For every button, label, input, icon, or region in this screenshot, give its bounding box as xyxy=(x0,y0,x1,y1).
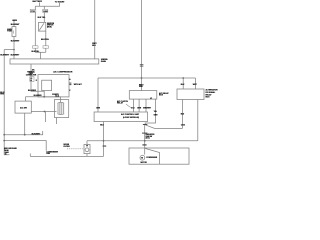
svg-text:GRN/WHT: GRN/WHT xyxy=(143,108,152,110)
svg-text:HORN: HORN xyxy=(12,20,16,22)
svg-text:BLK/YEL: BLK/YEL xyxy=(32,51,41,53)
svg-text:BLK/WHT: BLK/WHT xyxy=(11,24,21,26)
svg-text:A/C SW: A/C SW xyxy=(20,106,27,109)
svg-text:MOTOR: MOTOR xyxy=(141,162,148,164)
svg-text:BLK/WHT: BLK/WHT xyxy=(11,54,21,56)
svg-text:C5: C5 xyxy=(30,78,32,80)
svg-text:C432: C432 xyxy=(43,10,47,13)
svg-text:20: 20 xyxy=(30,80,32,82)
svg-text:BLK/YEL: BLK/YEL xyxy=(41,39,50,41)
svg-text:BLK/WHT: BLK/WHT xyxy=(32,134,42,136)
svg-text:BLU/RED: BLU/RED xyxy=(34,95,43,97)
svg-text:BATTERY: BATTERY xyxy=(33,0,43,3)
svg-text:(LOGIC MODULE): (LOGIC MODULE) xyxy=(123,117,139,119)
svg-text:BLU/RED: BLU/RED xyxy=(28,90,37,92)
svg-text:DASH: DASH xyxy=(101,60,107,63)
svg-text:YEL: YEL xyxy=(154,111,157,113)
svg-text:A/C CONTROL UNIT: A/C CONTROL UNIT xyxy=(121,113,140,116)
svg-text:TO START: TO START xyxy=(55,0,66,3)
svg-text:CONNECTOR: CONNECTOR xyxy=(26,75,37,77)
svg-text:C731: C731 xyxy=(31,11,35,13)
svg-text:(RUN): (RUN) xyxy=(47,26,52,28)
svg-text:PROT: PROT xyxy=(29,73,33,75)
svg-text:RELAY: RELAY xyxy=(117,102,124,105)
svg-text:BLK/WHT: BLK/WHT xyxy=(0,54,10,56)
svg-text:WITH A/T: WITH A/T xyxy=(74,83,83,86)
svg-text:A/C COMPRESSOR: A/C COMPRESSOR xyxy=(53,71,73,74)
svg-text:BLK/WHT: BLK/WHT xyxy=(11,40,21,42)
svg-text:87: 87 xyxy=(150,98,152,100)
svg-text:M: M xyxy=(141,158,143,160)
svg-text:(A/C): (A/C) xyxy=(146,136,150,139)
svg-text:FILTER: FILTER xyxy=(64,146,71,148)
svg-text:CONDENSER: CONDENSER xyxy=(146,157,158,159)
svg-text:C123: C123 xyxy=(181,125,185,127)
